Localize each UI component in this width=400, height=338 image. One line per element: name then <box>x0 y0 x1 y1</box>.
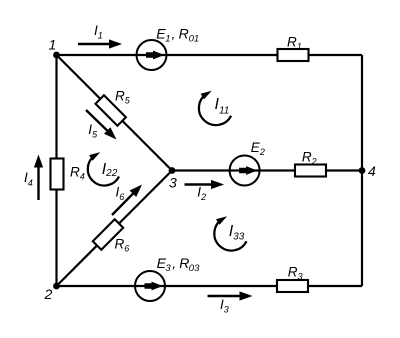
source E2 (circle with arrow) <box>230 156 260 186</box>
mesh current arrow I11 <box>199 91 231 125</box>
svg-text:2: 2 <box>44 286 53 302</box>
source E3, R03 (circle with arrow) <box>135 271 165 301</box>
svg-text:R2: R2 <box>302 149 317 166</box>
source E1, R01 (circle with arrow) <box>137 40 167 70</box>
svg-text:R3: R3 <box>288 265 303 282</box>
node 4 junction dot <box>359 167 366 174</box>
current arrow I4 <box>34 155 43 201</box>
wire: diagonal node 2 to node 3 <box>57 171 173 287</box>
svg-text:R5: R5 <box>115 89 131 106</box>
resistor R5 <box>95 95 125 125</box>
label E1, R01 <box>156 25 199 44</box>
wire: bottom branch node 2 to bottom-right corner <box>57 285 363 287</box>
svg-text:,: , <box>172 255 176 271</box>
svg-text:I2: I2 <box>197 185 206 202</box>
svg-text:,: , <box>172 25 176 41</box>
resistor R2 <box>295 165 326 177</box>
svg-text:I33: I33 <box>229 223 245 243</box>
wire: diagonal node 1 to node 3 <box>57 55 173 171</box>
svg-text:3: 3 <box>169 175 177 191</box>
node 3 junction dot <box>169 167 176 174</box>
svg-text:R6: R6 <box>115 237 130 254</box>
svg-text:I3: I3 <box>220 297 229 314</box>
wire: middle branch node 3 to node 4 <box>172 169 362 171</box>
svg-text:1: 1 <box>165 34 170 45</box>
node 2 junction dot <box>53 283 60 290</box>
wire: left branch node 1 to node 2 <box>55 55 57 286</box>
resistor R4 <box>51 159 64 190</box>
current arrow I1 <box>78 39 122 48</box>
wire: right branch, top-right corner down through node 4 to bottom-right corner <box>361 55 363 286</box>
label E3, R03 <box>157 255 200 274</box>
current arrow I6 <box>112 185 142 216</box>
svg-text:I11: I11 <box>215 96 230 116</box>
svg-text:03: 03 <box>189 263 200 274</box>
current arrow I2 <box>185 180 225 189</box>
svg-text:I6: I6 <box>116 185 125 202</box>
svg-text:R4: R4 <box>70 165 85 182</box>
current arrow I5 <box>86 110 117 140</box>
svg-text:R: R <box>179 25 189 41</box>
svg-text:4: 4 <box>368 163 376 179</box>
svg-text:I5: I5 <box>88 122 98 139</box>
mesh current arrow I33 <box>214 216 246 250</box>
svg-text:I4: I4 <box>24 170 33 188</box>
resistor R1 <box>278 49 309 61</box>
svg-text:I1: I1 <box>94 23 103 40</box>
svg-text:1: 1 <box>49 37 57 53</box>
resistor R3 <box>277 280 308 292</box>
node 1 junction dot <box>53 52 60 59</box>
svg-text:I22: I22 <box>102 161 118 179</box>
mesh current arrow I22 <box>88 152 119 185</box>
svg-text:3: 3 <box>165 263 171 274</box>
svg-text:R1: R1 <box>287 35 302 52</box>
svg-text:01: 01 <box>189 34 200 45</box>
current arrow I3 <box>208 291 253 300</box>
svg-text:E2: E2 <box>251 140 265 157</box>
wire: top branch node1 to top-right corner <box>57 54 363 56</box>
resistor R6 <box>93 219 123 249</box>
